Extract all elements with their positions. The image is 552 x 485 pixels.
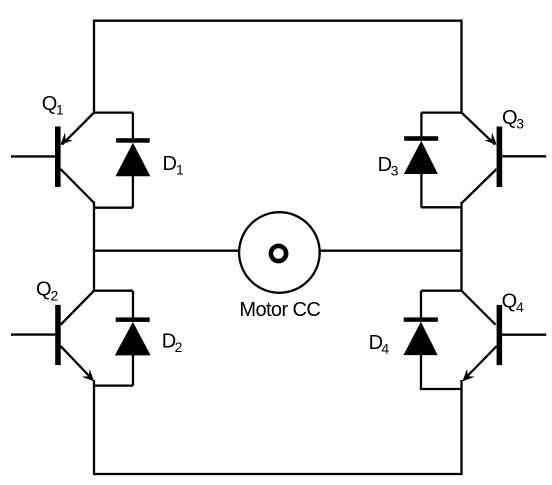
wire: bottom rail with left and right vertical risers xyxy=(94,380,462,474)
label D1 xyxy=(163,153,185,177)
svg-text:1: 1 xyxy=(176,161,184,177)
wire: Q1 emitter node to D1 bottom xyxy=(94,207,133,209)
svg-text:Q: Q xyxy=(502,290,518,312)
wire: Q4 emitter node to D4 bottom xyxy=(420,388,462,390)
label Q4 xyxy=(502,290,524,315)
wire: right rail between Q3 emitter node and Q4 collector node xyxy=(460,202,462,292)
wire: motor left lead xyxy=(94,250,240,252)
label Q1 xyxy=(42,93,64,118)
diode D1 xyxy=(116,113,151,208)
motor M1 (circle with armature ring) xyxy=(239,212,320,293)
svg-text:3: 3 xyxy=(391,162,399,178)
label Q3 xyxy=(502,107,524,132)
diode D4 xyxy=(403,291,438,389)
diode D3 xyxy=(404,113,438,208)
wire: top rail with left and right vertical drops xyxy=(94,21,462,114)
svg-text:Motor CC: Motor CC xyxy=(239,299,320,321)
svg-text:D: D xyxy=(163,153,177,175)
transistor Q4 (NPN, mirrored) xyxy=(462,291,547,382)
wire: Q1 collector node to D1 top xyxy=(94,111,133,113)
label D2 xyxy=(162,331,183,356)
diode D2 xyxy=(115,291,151,386)
wire: motor right lead xyxy=(320,250,462,252)
svg-text:4: 4 xyxy=(381,340,389,356)
label Q2 xyxy=(36,278,59,303)
label D3 xyxy=(378,154,399,178)
wire: Q3 emitter node to D3 bottom xyxy=(421,206,462,208)
wire: Q4 collector node to D4 top xyxy=(421,290,462,292)
svg-text:4: 4 xyxy=(516,299,524,315)
svg-text:2: 2 xyxy=(51,287,59,303)
svg-text:3: 3 xyxy=(516,116,524,132)
transistor Q1 (PNP) xyxy=(11,113,94,203)
wire: Q2 emitter node to D2 bottom xyxy=(94,384,133,386)
svg-text:Q: Q xyxy=(36,278,52,300)
wire: Q2 collector node to D2 top xyxy=(94,290,133,292)
svg-text:1: 1 xyxy=(56,102,64,118)
svg-text:2: 2 xyxy=(175,339,183,355)
label D4 xyxy=(369,332,390,356)
wire: left rail between Q1 emitter node and Q2 collector node xyxy=(93,202,95,292)
transistor Q3 (PNP, mirrored) xyxy=(462,113,547,204)
wire: Q3 collector node to D3 top xyxy=(421,111,461,113)
transistor Q2 (NPN) xyxy=(11,291,94,382)
